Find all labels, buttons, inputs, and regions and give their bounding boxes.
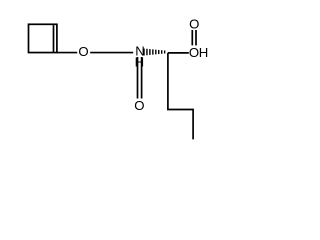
carbonyl C=O double bond under N (137, 57, 139, 99)
propyl chain (168, 53, 193, 139)
svg-text:O: O (189, 16, 199, 31)
svg-text:H: H (135, 55, 145, 70)
hashed wedge bond N to stereocenter (143, 49, 165, 56)
svg-text:O: O (189, 45, 199, 60)
wire: bond stereocenter to COOH (168, 52, 189, 54)
cyclobutene ring (29, 24, 57, 52)
svg-text:O: O (134, 98, 144, 113)
ring double bond (53, 25, 55, 52)
wire: bond O to N (90, 52, 133, 54)
svg-text:H: H (199, 45, 209, 60)
wire: bond ring to O (57, 52, 77, 54)
carboxyl C=O double bond (191, 30, 193, 45)
svg-text:O: O (78, 44, 88, 59)
